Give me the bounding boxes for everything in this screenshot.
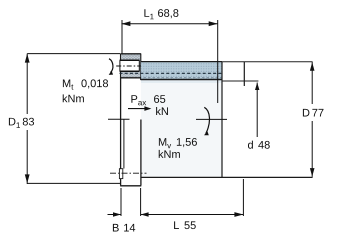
D77 top extension line (222, 61, 313, 63)
flange lower-half right edge (140, 120, 142, 186)
L dimension (141, 179, 244, 217)
label Mv 1,56 (159, 138, 197, 148)
L1 dimension (121, 20, 217, 103)
label D1 83 (9, 118, 34, 128)
grease boss (hatched block) (121, 54, 141, 77)
B dimension (108, 188, 149, 217)
label kN (Pax) (156, 107, 168, 115)
screw surface extension to d48 (222, 80, 258, 82)
threaded bar (blue) (141, 62, 222, 80)
label L1 68,8 (144, 9, 178, 19)
label Mt 0,018 (63, 79, 108, 89)
label kNm (Mv) (159, 150, 180, 158)
thread root dashed line (120, 72, 223, 74)
Mt moment arc arrow (109, 59, 113, 73)
axis tick left (108, 118, 130, 120)
label Pax 65 (131, 95, 165, 105)
lower grease nipple (119, 169, 122, 179)
body top line (141, 79, 222, 81)
boss hole (white band) (120, 60, 140, 71)
D1 dimension (25, 54, 120, 184)
right collar (222, 62, 244, 178)
label D 77 (303, 109, 324, 117)
Pax force arrow (128, 106, 151, 111)
thread shadow dashes near bottom (121, 77, 222, 79)
flange strip body (120, 54, 141, 186)
body bottom line (141, 176, 313, 178)
axis tick right (196, 118, 227, 120)
label B 14 (113, 224, 135, 232)
label kNm (Mt) (63, 94, 84, 102)
label d 48 (248, 141, 270, 149)
D77 dimension (310, 62, 315, 177)
boss centerline (dash-dot) (116, 65, 146, 67)
boss bottom edge (121, 77, 142, 79)
faint bore band (141, 80, 222, 83)
Mv moment arc arrow (204, 107, 209, 133)
d48 dimension (255, 83, 259, 138)
label L 55 (174, 221, 196, 229)
body interior light tint (141, 80, 222, 177)
nipple centerline (dash-dot) (110, 172, 147, 174)
flange inner line lower half (123, 120, 125, 169)
